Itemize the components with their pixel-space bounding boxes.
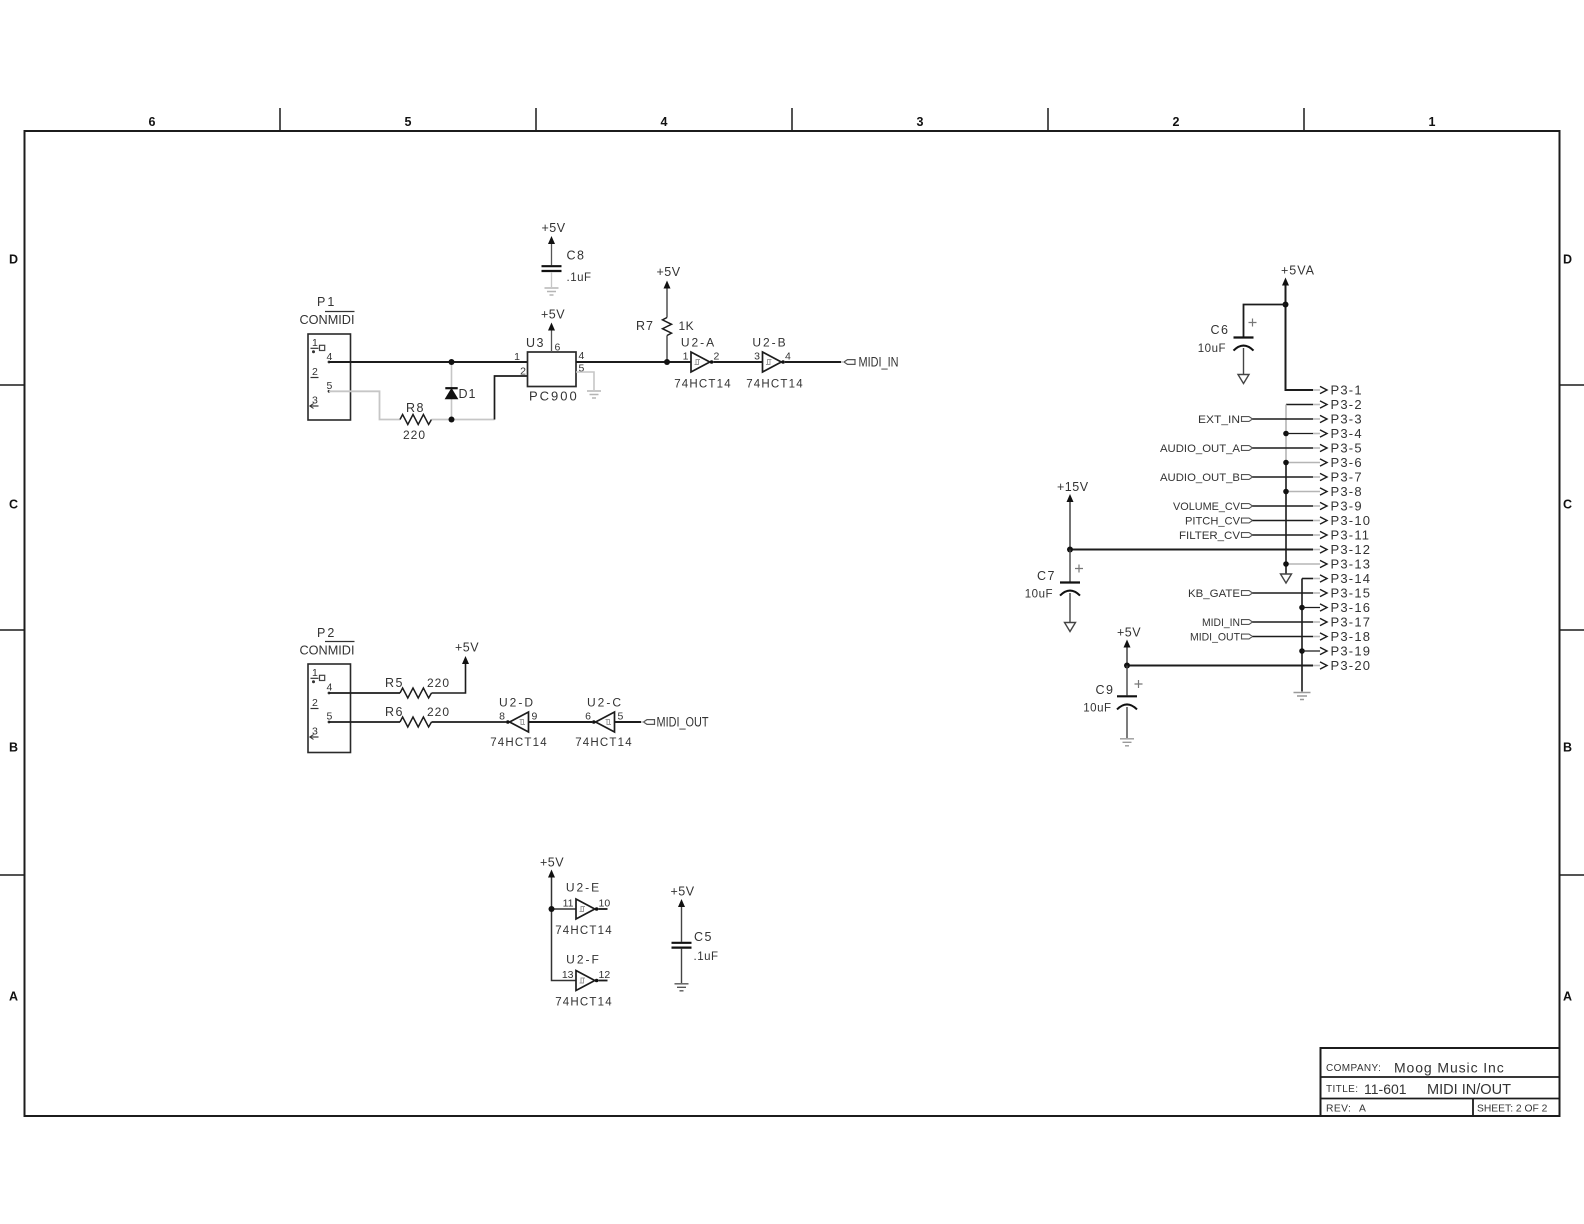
svg-text:1: 1 bbox=[312, 337, 318, 349]
svg-text:P3-18: P3-18 bbox=[1331, 629, 1372, 644]
analog ground below C7 bbox=[1065, 623, 1076, 632]
node P3-8 bbox=[1286, 484, 1363, 499]
svg-text:TITLE:: TITLE: bbox=[1326, 1084, 1358, 1095]
svg-text:220: 220 bbox=[403, 428, 426, 442]
junction node R7 / U2-A input bbox=[664, 359, 670, 365]
svg-text:R5: R5 bbox=[385, 676, 404, 690]
svg-text:12: 12 bbox=[599, 969, 611, 981]
svg-text:CONMIDI: CONMIDI bbox=[300, 644, 355, 658]
inverter U2-B 74HCT14 bbox=[746, 336, 804, 391]
net flag PITCH_CV bbox=[1185, 516, 1253, 528]
junction dot D1 top bbox=[449, 359, 455, 365]
svg-text:11-601: 11-601 bbox=[1364, 1081, 1407, 1097]
svg-text:U2-E: U2-E bbox=[566, 881, 601, 895]
node P3-17 bbox=[1313, 615, 1371, 630]
power +15V at C7 bbox=[1057, 480, 1089, 550]
svg-text:P3-12: P3-12 bbox=[1331, 542, 1372, 557]
ground below C8 bbox=[545, 288, 559, 295]
svg-text:REV:: REV: bbox=[1326, 1104, 1351, 1115]
node P3-11 bbox=[1313, 528, 1370, 543]
svg-text:P3-3: P3-3 bbox=[1331, 412, 1363, 427]
wire P1-4 to U3-1 bbox=[329, 361, 528, 363]
resistor R7 bbox=[636, 289, 694, 363]
P2 pin 1 bbox=[311, 667, 325, 683]
svg-text:U2-A: U2-A bbox=[681, 336, 716, 350]
svg-text:C: C bbox=[9, 498, 18, 512]
svg-text:C7: C7 bbox=[1037, 569, 1056, 583]
analog ground at bus bottom bbox=[1281, 574, 1292, 583]
wire +5VA rail to P3-1 bbox=[1286, 286, 1314, 391]
capacitor C8 bbox=[542, 221, 592, 287]
power +5V at C9 bbox=[1117, 626, 1141, 666]
node P3-6 bbox=[1286, 455, 1363, 470]
node P3-4 bbox=[1286, 426, 1363, 441]
svg-text:1K: 1K bbox=[679, 319, 695, 333]
wire U3 pin6 to +5V bbox=[551, 331, 553, 353]
svg-text:P3-11: P3-11 bbox=[1331, 528, 1371, 543]
node P3-16 bbox=[1302, 600, 1371, 615]
svg-text:+5V: +5V bbox=[455, 641, 479, 655]
svg-text:C9: C9 bbox=[1096, 683, 1115, 697]
svg-text:P2: P2 bbox=[317, 626, 336, 640]
P1 pin 3 bbox=[310, 395, 319, 409]
connector P2 CONMIDI bbox=[300, 626, 355, 753]
svg-text:2: 2 bbox=[714, 351, 720, 363]
node P3-19 bbox=[1302, 644, 1371, 659]
svg-text:P3-4: P3-4 bbox=[1331, 426, 1363, 441]
svg-text:B: B bbox=[9, 741, 18, 755]
resistor R6 bbox=[385, 705, 450, 727]
svg-text:U2-C: U2-C bbox=[587, 696, 623, 710]
wire U3-4 to U2-A input bbox=[576, 361, 691, 363]
svg-text:+5V: +5V bbox=[1117, 626, 1141, 640]
svg-text:R6: R6 bbox=[385, 705, 404, 719]
svg-text:P3-15: P3-15 bbox=[1331, 586, 1372, 601]
net flag AUDIO_OUT_B bbox=[1160, 472, 1253, 484]
junction dot bus P3-4 bbox=[1283, 431, 1289, 437]
ground at bus2 bottom bbox=[1294, 693, 1311, 700]
svg-text:5: 5 bbox=[618, 711, 624, 723]
svg-text:+5V: +5V bbox=[542, 221, 566, 235]
svg-text:MIDI IN/OUT: MIDI IN/OUT bbox=[1427, 1081, 1511, 1098]
svg-text:+5V: +5V bbox=[540, 856, 564, 870]
svg-text:MIDI_OUT: MIDI_OUT bbox=[1190, 632, 1240, 644]
power +5V at R5 bbox=[455, 641, 479, 665]
svg-text:10uF: 10uF bbox=[1025, 589, 1053, 601]
wire VOLUME_CV to P3-9 bbox=[1253, 505, 1314, 507]
net flag VOLUME_CV bbox=[1173, 501, 1253, 513]
svg-text:MIDI_OUT: MIDI_OUT bbox=[657, 715, 709, 730]
svg-text:P3-13: P3-13 bbox=[1331, 557, 1372, 572]
ground below C5 bbox=[675, 984, 689, 991]
wire U2-A out to U2-B in bbox=[713, 361, 762, 363]
svg-text:AUDIO_OUT_B: AUDIO_OUT_B bbox=[1160, 472, 1240, 484]
svg-text:+5V: +5V bbox=[541, 308, 565, 322]
wire MIDI_OUT to P3-18 bbox=[1253, 636, 1314, 638]
svg-text:+5VA: +5VA bbox=[1281, 264, 1315, 278]
svg-text:1: 1 bbox=[683, 351, 689, 363]
node P3-13 bbox=[1286, 557, 1371, 572]
svg-text:8: 8 bbox=[499, 711, 505, 723]
title block bbox=[1321, 1048, 1560, 1116]
resistor R5 bbox=[385, 676, 450, 698]
svg-text:P3-7: P3-7 bbox=[1331, 470, 1363, 485]
P2 pin 5 bbox=[327, 711, 333, 724]
svg-text:6: 6 bbox=[585, 711, 591, 723]
wire AUDIO_OUT_B to P3-7 bbox=[1253, 476, 1314, 478]
svg-text:D1: D1 bbox=[459, 387, 477, 401]
node P3-14 bbox=[1313, 571, 1371, 586]
svg-text:74HCT14: 74HCT14 bbox=[674, 379, 732, 391]
svg-text:C8: C8 bbox=[567, 249, 586, 263]
wire EXT_IN to P3-3 bbox=[1253, 418, 1314, 420]
capacitor C5 bbox=[671, 885, 719, 984]
wire FILTER_CV to P3-11 bbox=[1253, 534, 1314, 536]
svg-text:4: 4 bbox=[785, 351, 791, 363]
svg-text:A: A bbox=[1563, 990, 1572, 1004]
svg-text:10uF: 10uF bbox=[1198, 343, 1226, 355]
svg-text:74HCT14: 74HCT14 bbox=[555, 997, 613, 1009]
svg-text:2: 2 bbox=[312, 366, 318, 378]
svg-text:3: 3 bbox=[312, 395, 318, 407]
svg-text:3: 3 bbox=[312, 726, 318, 738]
svg-text:2: 2 bbox=[312, 697, 318, 709]
svg-text:11: 11 bbox=[563, 898, 574, 910]
inverter U2-A 74HCT14 bbox=[674, 336, 732, 391]
svg-text:P3-9: P3-9 bbox=[1331, 499, 1363, 514]
node P3-5 bbox=[1313, 441, 1363, 456]
svg-text:.1uF: .1uF bbox=[567, 272, 592, 284]
junction node +5V / C9 bbox=[1124, 663, 1130, 669]
wire U2-E output stub bbox=[598, 908, 607, 910]
wire U2-D in to U2-C output bbox=[529, 721, 593, 723]
junction dot bus P3-6 bbox=[1283, 460, 1289, 466]
wire +15V to P3-12 bbox=[1070, 549, 1313, 551]
wire AUDIO_OUT_A to P3-5 bbox=[1253, 447, 1314, 449]
node P3-7 bbox=[1313, 470, 1363, 485]
svg-text:220: 220 bbox=[427, 705, 450, 719]
svg-text:+5V: +5V bbox=[657, 265, 681, 279]
svg-text:74HCT14: 74HCT14 bbox=[555, 925, 613, 937]
junction node +15V / C7 bbox=[1067, 547, 1073, 553]
svg-text:P3-10: P3-10 bbox=[1331, 513, 1372, 528]
svg-text:74HCT14: 74HCT14 bbox=[746, 379, 804, 391]
wire P1-5 down to R8 path bbox=[329, 391, 400, 419]
wire R5 to +5V riser bbox=[432, 664, 466, 693]
svg-text:R7: R7 bbox=[636, 319, 654, 333]
svg-text:10: 10 bbox=[599, 898, 611, 910]
svg-text:+5V: +5V bbox=[671, 885, 695, 899]
net flag KB_GATE bbox=[1188, 588, 1253, 600]
net flag EXT_IN bbox=[1198, 414, 1253, 426]
inverter U2-C 74HCT14 bbox=[575, 696, 633, 750]
wire R6 to U2-D output bbox=[432, 721, 507, 723]
svg-text:4: 4 bbox=[579, 350, 585, 362]
net flag MIDI_IN bbox=[841, 355, 899, 370]
svg-text:B: B bbox=[1563, 741, 1572, 755]
svg-text:3: 3 bbox=[917, 115, 924, 129]
svg-text:U2-D: U2-D bbox=[499, 696, 535, 710]
svg-text:1: 1 bbox=[1429, 115, 1436, 129]
junction dot D1 bottom bbox=[449, 417, 455, 423]
junction dot bus P3-8 bbox=[1283, 489, 1289, 495]
net flag MIDI_OUT bbox=[641, 715, 709, 730]
svg-text:13: 13 bbox=[562, 969, 574, 981]
svg-text:6: 6 bbox=[149, 115, 156, 129]
svg-text:C5: C5 bbox=[694, 930, 713, 944]
wire +5VA to C6 bbox=[1244, 305, 1286, 337]
svg-text:P3-8: P3-8 bbox=[1331, 484, 1363, 499]
wire PITCH_CV to P3-10 bbox=[1253, 520, 1314, 522]
optocoupler U3 PC900 bbox=[514, 336, 584, 404]
node P3-15 bbox=[1313, 586, 1371, 601]
svg-text:2: 2 bbox=[1173, 115, 1180, 129]
svg-text:KB_GATE: KB_GATE bbox=[1188, 588, 1240, 600]
junction dot bus2 P3-16 bbox=[1299, 605, 1305, 611]
wire KB_GATE to P3-15 bbox=[1253, 592, 1314, 594]
wire +5V rail to U2-E and U2-F inputs bbox=[552, 878, 577, 981]
node P3-20 bbox=[1313, 658, 1371, 673]
net flag MIDI_IN (P3) bbox=[1202, 617, 1253, 629]
svg-text:P3-20: P3-20 bbox=[1331, 658, 1372, 673]
wire U2-F output stub bbox=[598, 980, 607, 982]
node P3-3 bbox=[1313, 412, 1363, 427]
wire P2-4 to R5 bbox=[329, 692, 400, 694]
wire MIDI_IN to P3-17 bbox=[1253, 621, 1314, 623]
svg-text:.1uF: .1uF bbox=[694, 951, 719, 963]
svg-text:A: A bbox=[1359, 1104, 1366, 1115]
P2 pin 4 bbox=[327, 682, 333, 695]
power +5V at U2-E/F spares bbox=[540, 856, 564, 878]
analog ground below C6 bbox=[1238, 375, 1249, 384]
svg-text:4: 4 bbox=[661, 115, 668, 129]
svg-text:MIDI_IN: MIDI_IN bbox=[1202, 617, 1240, 629]
svg-text:Moog Music Inc: Moog Music Inc bbox=[1394, 1060, 1505, 1076]
inverter U2-F 74HCT14 bbox=[555, 953, 613, 1009]
svg-text:U3: U3 bbox=[526, 336, 545, 350]
inverter U2-D 74HCT14 bbox=[490, 696, 548, 750]
svg-text:SHEET: 2 OF 2: SHEET: 2 OF 2 bbox=[1477, 1104, 1548, 1115]
svg-text:D: D bbox=[9, 253, 18, 267]
capacitor C7 10uF polarized bbox=[1025, 550, 1083, 623]
svg-text:P3-14: P3-14 bbox=[1331, 571, 1372, 586]
svg-text:1: 1 bbox=[514, 351, 520, 363]
node P3-9 bbox=[1313, 499, 1363, 514]
svg-text:+15V: +15V bbox=[1057, 480, 1089, 494]
wire digital ground bus bbox=[1302, 579, 1313, 692]
ground below C9 bbox=[1120, 739, 1134, 746]
svg-text:P1: P1 bbox=[317, 295, 336, 309]
svg-text:PC900: PC900 bbox=[529, 389, 579, 404]
wire P2-5 to R6 bbox=[329, 721, 400, 723]
junction node +5VA / C6 bbox=[1283, 302, 1289, 308]
power +5V at R7 bbox=[657, 265, 681, 289]
node P3-10 bbox=[1313, 513, 1371, 528]
net flag FILTER_CV bbox=[1179, 530, 1253, 542]
svg-text:2: 2 bbox=[520, 366, 526, 378]
svg-text:R8: R8 bbox=[406, 401, 425, 415]
power +5VA bbox=[1281, 264, 1315, 286]
svg-text:220: 220 bbox=[427, 676, 450, 690]
resistor R8 bbox=[400, 401, 432, 442]
svg-text:6: 6 bbox=[555, 342, 561, 354]
junction dot bus2 P3-19 bbox=[1299, 648, 1305, 654]
svg-text:VOLUME_CV: VOLUME_CV bbox=[1173, 501, 1240, 513]
svg-text:MIDI_IN: MIDI_IN bbox=[859, 355, 899, 370]
P1 pin 1 bbox=[311, 337, 325, 353]
junction dot bus P3-13 bbox=[1283, 561, 1289, 567]
svg-text:EXT_IN: EXT_IN bbox=[1198, 414, 1240, 426]
connector P1 CONMIDI bbox=[300, 295, 355, 420]
svg-text:3: 3 bbox=[754, 351, 760, 363]
node P3-18 bbox=[1313, 629, 1371, 644]
svg-text:U2-F: U2-F bbox=[566, 953, 601, 967]
svg-text:D: D bbox=[1563, 253, 1572, 267]
node P3-1 bbox=[1313, 383, 1363, 398]
svg-text:COMPANY:: COMPANY: bbox=[1326, 1063, 1381, 1074]
svg-text:P3-1: P3-1 bbox=[1331, 383, 1363, 398]
svg-text:U2-B: U2-B bbox=[752, 336, 787, 350]
svg-text:9: 9 bbox=[532, 711, 538, 723]
net flag MIDI_OUT (P3) bbox=[1190, 632, 1253, 644]
svg-text:P3-6: P3-6 bbox=[1331, 455, 1363, 470]
P1 pin 2 bbox=[311, 366, 319, 378]
wire U2-B out to MIDI_IN bbox=[785, 361, 841, 363]
ground at U3 pin 5 bbox=[587, 391, 601, 398]
net flag AUDIO_OUT_A bbox=[1160, 443, 1253, 455]
svg-text:PITCH_CV: PITCH_CV bbox=[1185, 516, 1240, 528]
svg-text:10uF: 10uF bbox=[1083, 703, 1111, 715]
svg-text:C: C bbox=[1563, 498, 1572, 512]
svg-text:P3-2: P3-2 bbox=[1331, 397, 1363, 412]
capacitor C6 10uF polarized bbox=[1198, 319, 1257, 375]
wire U3 pin5 to ground bbox=[576, 372, 594, 390]
capacitor C9 10uF polarized bbox=[1083, 666, 1142, 739]
svg-text:AUDIO_OUT_A: AUDIO_OUT_A bbox=[1160, 443, 1240, 455]
wire analog ground bus bbox=[1286, 405, 1313, 574]
svg-text:P3-5: P3-5 bbox=[1331, 441, 1363, 456]
node P3-2 bbox=[1313, 397, 1363, 412]
svg-text:C6: C6 bbox=[1211, 323, 1230, 337]
svg-text:1: 1 bbox=[312, 667, 318, 679]
power +5V at U3 pin 6 bbox=[541, 308, 565, 331]
inverter U2-E 74HCT14 bbox=[555, 881, 613, 938]
wire U2-C in to MIDI_OUT bbox=[615, 721, 642, 723]
P1 pin 4 bbox=[327, 351, 333, 363]
svg-text:74HCT14: 74HCT14 bbox=[490, 737, 548, 749]
svg-text:A: A bbox=[9, 990, 18, 1004]
svg-text:P3-16: P3-16 bbox=[1331, 600, 1372, 615]
junction node U2-E input bbox=[549, 906, 555, 912]
diode D1 bbox=[445, 362, 476, 420]
svg-text:P3-17: P3-17 bbox=[1331, 615, 1372, 630]
node P3-12 bbox=[1313, 542, 1371, 557]
svg-text:FILTER_CV: FILTER_CV bbox=[1179, 530, 1240, 542]
svg-text:P3-19: P3-19 bbox=[1331, 644, 1372, 659]
svg-text:CONMIDI: CONMIDI bbox=[300, 313, 355, 327]
wire R8 to D1 bottom and U3-2 riser bbox=[432, 376, 528, 420]
svg-text:74HCT14: 74HCT14 bbox=[575, 737, 633, 749]
wire +5V to P3-20 bbox=[1127, 665, 1313, 667]
svg-text:5: 5 bbox=[405, 115, 412, 129]
P2 pin 3 bbox=[310, 726, 319, 740]
P2 pin 2 bbox=[311, 697, 319, 709]
P1 pin 5 bbox=[327, 380, 333, 393]
